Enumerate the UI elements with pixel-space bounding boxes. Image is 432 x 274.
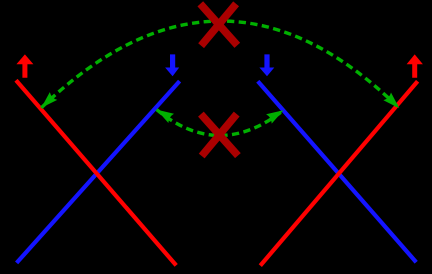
- wire: right red path (lower-left to upper-right): [260, 81, 417, 265]
- wire: left red path (upper-left to lower-right): [16, 80, 176, 265]
- arrow: red spin-up arrow left: [16, 54, 33, 77]
- arrowhead: small arc right end: [266, 110, 283, 123]
- arrowhead: small arc left end: [157, 110, 174, 123]
- forbidden mark: big dark-red X (top center): [200, 4, 237, 46]
- wire: right blue path (upper-left to lower-right): [258, 81, 416, 262]
- arrow: blue spin-down arrow right: [259, 54, 274, 76]
- green dashed correlation arc: big (top, between red paths): [41, 21, 399, 108]
- arrow: red spin-up arrow right: [407, 54, 423, 77]
- green dashed correlation arc: small (middle, between blue paths): [157, 110, 284, 136]
- arrow: blue spin-down arrow left: [165, 54, 179, 76]
- arrowhead: big arc right end: [383, 93, 399, 109]
- arrowhead: big arc left end: [41, 92, 57, 108]
- forbidden mark: small dark-red X (middle center): [201, 114, 238, 156]
- wire: left blue path (lower-left to upper-right): [17, 81, 180, 263]
